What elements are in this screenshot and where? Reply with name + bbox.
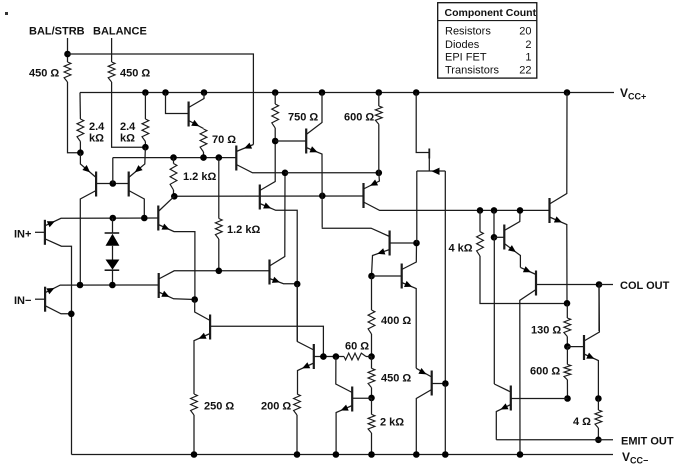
svg-text:Diodes: Diodes [445, 39, 480, 51]
transistor Q14 collector [550, 93, 568, 205]
diode D1 cathode bar [105, 232, 120, 234]
transistor Q20 base [210, 326, 323, 356]
wire R16 bottom [296, 415, 298, 455]
node marker (page bullet) [5, 12, 8, 15]
transistor Q6 collector [260, 141, 275, 191]
node junction rail-R6 [272, 89, 279, 96]
wire rail to R4 [144, 93, 146, 120]
svg-text:450 Ω: 450 Ω [29, 68, 59, 80]
transistor Q19 emitter [336, 406, 352, 455]
resistor R14 2k [368, 414, 375, 433]
node junction rail-R7 [376, 89, 383, 96]
transistor Q18 emitter [496, 405, 511, 440]
transistor Q16 bar [535, 271, 537, 296]
svg-text:2 kΩ: 2 kΩ [380, 417, 404, 429]
transistor Q13 collector [402, 243, 417, 270]
transistor Q16 collector [520, 290, 536, 455]
node junction J1-Q12base-Q13coll [413, 240, 420, 247]
wire R10 bottom to 130 node [480, 256, 567, 304]
wire BALANCE lead down [111, 38, 113, 62]
node BAL/STRB junction [64, 51, 71, 58]
transistor Q4 collector [189, 93, 204, 108]
transistor Q2 emitter [80, 153, 96, 178]
node junction Q26coll [68, 311, 75, 318]
svg-text:kΩ: kΩ [89, 133, 104, 145]
wire R15 bottom [193, 415, 195, 455]
node junction Q3coll-bus [141, 215, 148, 222]
svg-text:450 Ω: 450 Ω [381, 373, 411, 385]
node junction R7-Q11emit [376, 170, 383, 177]
transistor Q26 base [35, 298, 45, 300]
transistor Q6 emitter [260, 204, 297, 342]
resistor R17 130ohm [564, 318, 571, 337]
transistor Q3 collector [129, 191, 145, 218]
transistor Q22 collector [416, 390, 431, 455]
svg-text:Component Count: Component Count [445, 7, 537, 19]
node junction R6-Q7base-Q6coll [272, 138, 279, 145]
EPI FET J1 arrow [432, 168, 440, 175]
transistor Q10 emitter [270, 279, 298, 284]
transistor Q2 bar [95, 172, 97, 197]
wire Q17 collector drop [598, 285, 600, 332]
svg-text:BALANCE: BALANCE [93, 26, 147, 38]
transistor Q3 bar [128, 172, 130, 197]
wire Q4 base from rail [166, 93, 188, 114]
transistor Q4 bar [188, 102, 190, 127]
transistor Q19 collector [336, 357, 352, 393]
EPI FET J1 drain leg [444, 171, 446, 384]
transistor Q21 bar [313, 344, 315, 369]
resistor R12 60ohm [344, 353, 366, 360]
transistor Q14 bar [548, 198, 550, 223]
node junction R18-busEO [564, 395, 571, 402]
node junction Q8-Q9 emitters [191, 296, 198, 303]
node junction R17 top [564, 300, 571, 307]
node junction Q22base-J1leg [442, 380, 449, 387]
node junction R9-Q10base [216, 268, 223, 275]
wire base line Q6 [174, 195, 363, 197]
svg-text:BAL/STRB: BAL/STRB [29, 26, 85, 38]
transistor Q13 bar [401, 264, 403, 289]
transistor Q8 collector [158, 196, 174, 211]
wire BAL/STRB top horizontal to T5 emitter [68, 54, 254, 145]
wire R11 bottom [371, 334, 373, 357]
wire R2 bottom to Q3 emitter node [112, 82, 146, 147]
node junction Q21base-railstub [333, 353, 340, 360]
transistor Q17 bar [583, 335, 585, 360]
node junction diodes top [110, 215, 117, 222]
transistor Q10 collector [270, 173, 286, 266]
resistor R2 450ohm [108, 62, 115, 82]
table header separator [438, 20, 537, 22]
transistor Q7 base [275, 140, 306, 142]
node junction Q6emit-Q10emit [294, 281, 301, 288]
transistor Q15 collector [504, 210, 520, 230]
diode D2 cathode bar [105, 269, 120, 271]
node junction Q17emit-R19 [595, 395, 602, 402]
node junction Q2coll-bus [77, 282, 84, 289]
transistor Q3 base [113, 183, 129, 185]
EPI FET J1 gate lead [416, 93, 429, 153]
transistor Q12 bar [389, 231, 391, 256]
node junction R19-EMIT OUT [595, 437, 602, 444]
wire VCC+ rail [80, 92, 614, 94]
wire R7 top [378, 93, 380, 107]
wire R6 bottom [274, 128, 276, 141]
node junction Q3 emitter [142, 144, 149, 151]
svg-text:4 Ω: 4 Ω [573, 416, 591, 428]
transistor Q7 bar [305, 129, 307, 154]
node junction R17-R18-Q17base [564, 343, 571, 350]
svg-text:2.4: 2.4 [89, 121, 105, 133]
svg-text:EMIT OUT: EMIT OUT [621, 436, 674, 448]
svg-text:200 Ω: 200 Ω [261, 401, 291, 413]
resistor R3 2.4k [77, 119, 84, 142]
transistor Q21 emitter [298, 363, 314, 394]
transistor Q16 emitter [520, 267, 536, 274]
transistor Q19 base [352, 397, 371, 399]
wire J1 drain to rail [444, 384, 446, 455]
wire diode top lead [112, 218, 114, 233]
diode D1 triangle [106, 234, 120, 246]
wire R9 top [218, 158, 220, 219]
wire R1 bottom to Q2 emitter node [68, 82, 81, 153]
wire R18 top lead [566, 347, 568, 365]
node junction bus-R10 [477, 207, 484, 214]
transistor Q22 bar [431, 371, 433, 396]
wire R10 top [479, 210, 481, 231]
node junction R8-Q8coll [171, 193, 178, 200]
resistor R4 2.4k [142, 119, 149, 142]
transistor Q9 bar [158, 273, 160, 298]
wire Q12 collector link [322, 228, 389, 237]
wire R17 bottom lead [566, 337, 568, 347]
transistor Q26 emitter up [45, 285, 159, 293]
wire diode bottom lead [112, 270, 114, 285]
resistor R18 600ohm [564, 364, 571, 379]
transistor Q11 emitter [364, 173, 380, 189]
node junction rail-Q7coll [319, 89, 326, 96]
svg-text:70 Ω: 70 Ω [212, 134, 236, 146]
svg-text:COL OUT: COL OUT [620, 280, 670, 292]
wire base node up [112, 158, 114, 184]
resistor R19 4ohm [595, 410, 602, 428]
wire R9 bottom [218, 239, 220, 271]
wire R14 top [371, 398, 373, 415]
transistor Q12 emitter [372, 250, 390, 277]
EPI FET J1 channel [417, 170, 446, 172]
transistor Q15 bar [503, 225, 505, 250]
EPI FET J1 source leg [416, 171, 418, 243]
resistor R6 750ohm [272, 104, 279, 128]
transistor Q13 emitter [402, 283, 417, 369]
resistor R1 450ohm [64, 62, 71, 82]
wire R14 bottom [371, 433, 373, 455]
diode D2 triangle [106, 260, 120, 270]
node junction bus-R9 [216, 154, 223, 161]
transistor Q13 base [372, 275, 402, 277]
transistor Q8 emitter [158, 225, 195, 300]
svg-text:250 Ω: 250 Ω [204, 401, 234, 413]
transistor Q20 collector [195, 300, 210, 321]
node junction rail-J1 [413, 89, 420, 96]
svg-text:22: 22 [519, 65, 531, 77]
node junction Q2-Q3 base [110, 180, 117, 187]
transistor Q15 emitter [504, 244, 520, 268]
node junction bus-R8 [170, 154, 177, 161]
wire R12 right lead [366, 356, 372, 358]
node junction Q20base-Q21base [320, 353, 327, 360]
node junction COL OUT [596, 281, 603, 288]
transistor Q1 bar [44, 220, 46, 245]
transistor Q20 emitter [194, 334, 210, 395]
wire R4 bottom [144, 142, 146, 148]
transistor Q1 collector down [45, 239, 72, 455]
transistor Q7 collector [306, 93, 322, 135]
svg-text:2.4: 2.4 [120, 121, 136, 133]
node junction rail-Q16coll [517, 451, 524, 458]
node junction rail-Q19emit [333, 451, 340, 458]
wire R18 bottom lead [566, 380, 568, 399]
resistor R8 1.2k [170, 164, 177, 191]
wire Q18 collector rise [493, 237, 495, 384]
wire base bus to Q5 [113, 157, 237, 159]
svg-text:4 kΩ: 4 kΩ [449, 243, 473, 255]
wire R17 top lead [566, 303, 568, 318]
transistor Q22 base [432, 383, 446, 385]
wire diode middle [112, 246, 114, 260]
svg-text:Transistors: Transistors [445, 65, 499, 77]
wire collector bus 173 [285, 172, 379, 174]
EPI FET J1 gate bar [428, 149, 430, 159]
transistor Q2 base [96, 183, 113, 185]
transistor Q16 base to COL OUT [536, 284, 599, 286]
resistor R10 4k [477, 232, 484, 256]
svg-text:450 Ω: 450 Ω [120, 68, 150, 80]
node junction rail-R16 [294, 451, 301, 458]
transistor Q10 bar [268, 260, 270, 285]
node junction R13-R14-Q19base [368, 395, 375, 402]
transistor Q14 emitter [550, 217, 568, 303]
transistor Q9 emitter [159, 292, 195, 300]
resistor R7 600ohm [375, 106, 382, 124]
svg-text:400 Ω: 400 Ω [381, 315, 411, 327]
transistor Q21 base [314, 356, 336, 358]
svg-text:130 Ω: 130 Ω [531, 325, 561, 337]
svg-text:60 Ω: 60 Ω [345, 341, 369, 353]
node junction rail-J1 [442, 451, 449, 458]
wire R5 bottom [203, 152, 205, 158]
svg-text:750 Ω: 750 Ω [288, 112, 318, 124]
transistor Q17 base [567, 346, 584, 348]
svg-text:20: 20 [519, 26, 531, 38]
transistor Q22 emitter [416, 368, 432, 377]
transistor Q18 bar [510, 386, 512, 411]
wire R3 bottom [79, 142, 81, 153]
resistor R5 70ohm [200, 129, 207, 152]
wire R13 bottom [371, 388, 373, 398]
svg-text:1: 1 [525, 52, 531, 64]
node junction rail-R15 [191, 451, 198, 458]
svg-text:1.2 kΩ: 1.2 kΩ [183, 171, 216, 183]
transistor Q4 emitter [189, 121, 204, 129]
resistor R16 200ohm [294, 394, 301, 415]
node junction Q15base-Q18coll [491, 234, 498, 241]
transistor Q11 collector [364, 202, 550, 210]
transistor Q18 base [511, 398, 568, 400]
transistor Q11 bar [362, 183, 364, 208]
transistor Q8 bar [157, 206, 159, 231]
svg-text:600 Ω: 600 Ω [344, 112, 374, 124]
wire R19 bottom lead [597, 428, 599, 440]
wire R8 top [173, 158, 175, 164]
resistor R9 1.2k [215, 219, 222, 240]
svg-text:IN−: IN− [14, 295, 31, 307]
node junction rail-Q4coll [201, 89, 208, 96]
wire EMIT OUT line [496, 439, 613, 441]
transistor Q21 collector [297, 284, 314, 350]
wire R7 bottom [378, 124, 380, 173]
transistor Q18 collector [494, 384, 511, 392]
transistor Q17 collector [584, 285, 599, 342]
node junction Q5coll-Q10coll [282, 170, 289, 177]
svg-text:Resistors: Resistors [445, 26, 491, 38]
transistor Q26 bar [44, 287, 46, 312]
wire R6 top [274, 93, 276, 105]
transistor Q3 emitter [129, 147, 146, 177]
transistor Q5 bar [235, 146, 237, 171]
transistor Q1 emitter up [45, 218, 158, 226]
transistor Q7 emitter [306, 148, 322, 228]
transistor Q17 emitter [584, 354, 598, 399]
wire R19 top lead [597, 399, 599, 411]
transistor Q26 collector down [45, 306, 71, 314]
wire R12 left lead [336, 356, 344, 358]
node junction bus-Q15coll [517, 207, 524, 214]
node junction diodes bottom [109, 282, 116, 289]
svg-text:600 Ω: 600 Ω [530, 366, 560, 378]
transistor Q5 emitter [236, 145, 253, 152]
svg-text:1.2 kΩ: 1.2 kΩ [227, 224, 260, 236]
resistor R11 400ohm [368, 310, 375, 334]
node junction Q12emit-R11-Q13base [368, 273, 375, 280]
svg-text:kΩ: kΩ [120, 133, 135, 145]
EPI FET J1 gate drop [428, 153, 430, 172]
wire BAL/STRB lead down [67, 38, 69, 62]
transistor Q6 bar [259, 185, 261, 210]
node junction rail-Q22coll [413, 451, 420, 458]
transistor Q15 base [494, 236, 504, 238]
wire R13 top [371, 357, 373, 369]
node junction rail-Q14coll [564, 89, 571, 96]
node junction R11-R12-R13 [368, 353, 375, 360]
wire COL OUT stub [599, 284, 613, 286]
resistor R15 250ohm [191, 394, 198, 415]
resistor R13 450ohm [368, 368, 375, 387]
wire rail corner to R3 [79, 93, 81, 120]
table frame [438, 3, 537, 78]
node junction Q7emit-Q12coll [319, 193, 326, 200]
node junction rail-Q4base [162, 89, 169, 96]
wire R11 top [371, 276, 373, 310]
transistor Q5 collector [236, 165, 285, 173]
node junction Q2 emitter [77, 149, 84, 156]
wire VCC- rail [72, 454, 614, 456]
transistor Q19 bar [351, 387, 353, 412]
transistor Q1 base [35, 231, 45, 233]
transistor Q12 base [390, 242, 417, 244]
transistor Q2 collector [80, 191, 96, 286]
node junction bus-R5 [200, 154, 207, 161]
svg-text:EPI FET: EPI FET [445, 52, 487, 64]
svg-text:IN+: IN+ [14, 229, 31, 241]
transistor Q20 bar [209, 315, 211, 340]
wire R8 bottom [173, 190, 175, 196]
node junction rail-R4 [142, 89, 149, 96]
node junction rail-R14 [368, 451, 375, 458]
transistor Q9 collector [159, 271, 270, 279]
svg-text:2: 2 [525, 39, 531, 51]
wire Q15 base drop [493, 210, 495, 237]
node junction bus-Q15base [491, 207, 498, 214]
